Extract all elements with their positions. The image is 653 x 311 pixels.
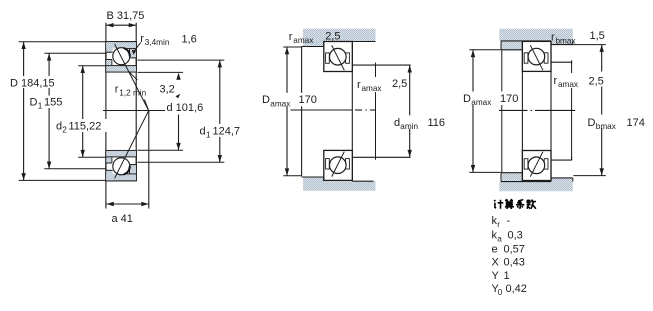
svg-text:X: X: [492, 257, 500, 269]
svg-text:170: 170: [500, 93, 518, 105]
svg-text:1,2 min: 1,2 min: [119, 89, 146, 98]
svg-text:r: r: [551, 32, 555, 44]
text labels view 3: [462, 30, 645, 131]
svg-text:116: 116: [428, 117, 446, 129]
bottom bearing rect view2 (mirror): [324, 150, 353, 180]
bottom bearing section view1 (mirror): [106, 151, 136, 181]
header 计算系数 (hand drawn glyphs): [494, 200, 536, 209]
svg-text:B 31,75: B 31,75: [107, 10, 145, 22]
top bearing rect view3: [522, 41, 551, 71]
svg-text:1,5: 1,5: [590, 30, 605, 42]
svg-text:r: r: [497, 220, 500, 229]
label d2: [55, 119, 109, 135]
housing top view3: [499, 29, 573, 50]
apex extension line: [148, 111, 150, 209]
svg-text:0,43: 0,43: [504, 257, 525, 269]
svg-text:amax: amax: [362, 84, 382, 93]
label ramax 2,5 view3: [552, 73, 583, 89]
svg-text:2,5: 2,5: [392, 78, 407, 90]
svg-text:170: 170: [299, 94, 317, 106]
dimension d1 line: [219, 60, 221, 162]
svg-text:a: a: [497, 235, 502, 244]
dimension D1 line: [48, 53, 50, 169]
svg-text:D 184,15: D 184,15: [10, 78, 55, 90]
label damin 116 view2: [393, 115, 449, 131]
leader r34: [135, 43, 141, 51]
svg-text:115,22: 115,22: [69, 120, 102, 132]
svg-text:Y: Y: [492, 270, 500, 282]
housing top view2: [303, 29, 376, 47]
svg-text:D: D: [588, 117, 596, 129]
housing bottom view2: [303, 177, 376, 191]
svg-text:0,42: 0,42: [506, 283, 527, 295]
axis centerline view 1: [103, 110, 167, 112]
svg-text:2,5: 2,5: [325, 31, 340, 43]
计: [494, 200, 503, 209]
svg-text:r: r: [115, 84, 119, 96]
svg-text:amin: amin: [400, 122, 418, 131]
svg-text:r: r: [140, 33, 144, 45]
svg-text:0,3: 0,3: [508, 229, 523, 241]
svg-text:2: 2: [62, 126, 67, 135]
dimension Damax view3: [472, 50, 474, 173]
bearing face line view2: [351, 42, 353, 182]
svg-text:D: D: [262, 94, 270, 106]
top bearing rect view2: [324, 42, 353, 72]
shaft shoulder face view3: [571, 62, 573, 160]
svg-text:155: 155: [44, 97, 62, 109]
dimension d2 line: [82, 66, 84, 158]
dimension a line: [106, 203, 148, 205]
svg-text:D: D: [463, 93, 471, 105]
dimension d line: [178, 115, 180, 151]
label d1 124,7: [198, 124, 246, 140]
svg-text:D: D: [30, 97, 38, 109]
svg-text:bmax: bmax: [596, 122, 616, 131]
label Damax 170 view3: [462, 92, 519, 108]
svg-text:r: r: [289, 31, 293, 43]
系: [516, 200, 524, 209]
label D1: [28, 96, 67, 111]
housing face line view3: [501, 50, 503, 173]
svg-text:d: d: [394, 117, 400, 129]
text labels view 1: [9, 10, 247, 225]
bearing right face line view3: [550, 41, 552, 181]
right face extension line view1: [135, 23, 137, 181]
housing bottom view3: [499, 173, 573, 191]
bottom bearing rect view3 (mirror): [522, 151, 551, 181]
shaft shoulder bottom view3: [551, 159, 572, 161]
small arrow 3,2: [176, 94, 181, 99]
svg-text:amax: amax: [270, 99, 290, 108]
svg-text:2,5: 2,5: [589, 76, 604, 88]
leader r12 to apex: [144, 100, 148, 110]
left face extension line view1: [105, 23, 107, 209]
svg-text:124,7: 124,7: [213, 126, 241, 138]
svg-text:e: e: [492, 243, 498, 255]
text labels view 2: [261, 31, 449, 132]
shaft shoulder bottom view2: [352, 156, 410, 158]
svg-text:a 41: a 41: [112, 213, 133, 225]
dimension Dbmax view3: [601, 45, 603, 176]
contact angle line top: [115, 44, 149, 111]
算: [505, 200, 512, 201]
svg-text:1: 1: [206, 131, 211, 140]
label D: [9, 76, 56, 90]
svg-text:bmax: bmax: [556, 37, 576, 46]
svg-text:d 101,6: d 101,6: [167, 102, 204, 114]
contact angle line bottom: [115, 110, 149, 178]
svg-text:1,6: 1,6: [182, 34, 197, 46]
svg-text:-: -: [507, 215, 511, 227]
svg-text:amax: amax: [471, 98, 491, 107]
svg-text:174: 174: [627, 117, 645, 129]
leader r12 to top section: [130, 72, 138, 80]
dimension D line: [23, 42, 25, 181]
svg-text:0: 0: [498, 288, 503, 297]
svg-text:1: 1: [38, 102, 43, 111]
svg-text:3,2: 3,2: [160, 84, 175, 96]
axis centerline view2: [291, 109, 353, 111]
svg-text:3,4min: 3,4min: [145, 38, 170, 47]
svg-text:r: r: [357, 79, 361, 91]
数: [526, 200, 530, 204]
label ramax mid view2: [356, 77, 387, 93]
label d 101,6: [165, 101, 206, 115]
svg-text:0,57: 0,57: [504, 243, 525, 255]
dimension damin view2: [409, 65, 411, 157]
svg-text:d: d: [56, 120, 62, 132]
svg-text:1: 1: [504, 270, 510, 282]
svg-text:amax: amax: [558, 80, 578, 89]
shaft shoulder face view2: [375, 63, 377, 160]
housing face line view2: [301, 46, 303, 176]
axis centerline view3: [499, 109, 528, 111]
svg-text:r: r: [554, 75, 558, 87]
label Damax 170 view2: [261, 93, 317, 109]
dimension B line: [107, 24, 136, 26]
dimension Damax view2: [286, 47, 288, 176]
svg-text:amax: amax: [293, 36, 313, 45]
bearing left face line view3: [521, 41, 523, 181]
shaft shoulder top view2: [352, 64, 410, 66]
svg-text:d: d: [200, 126, 206, 138]
shaft shoulder top view3: [551, 61, 572, 63]
label Dbmax 174 view3: [586, 115, 645, 132]
top bearing section view1: [106, 42, 136, 72]
